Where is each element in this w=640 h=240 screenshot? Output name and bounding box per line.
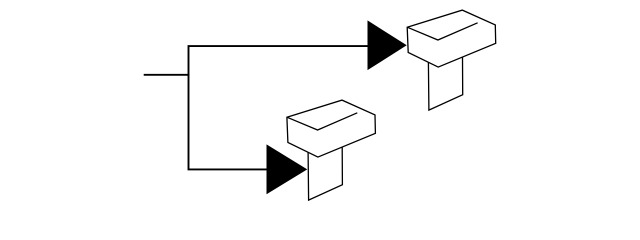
transducer 1 stem plate (428, 57, 462, 110)
op-amp U1 (top buffer triangle) (368, 21, 406, 69)
wire: input stub (144, 74, 190, 76)
node: fan-out junction / wire: vertical bus with top and bottom branches (189, 46, 369, 169)
transducer 2 slab outline (287, 100, 376, 157)
op-amp U2 (bottom buffer triangle) (267, 145, 306, 193)
transducer 1 top-face crease (407, 23, 477, 40)
transducer 2 top-face crease (287, 113, 357, 130)
transducer 1 slab outline (407, 10, 496, 67)
transducer block 2 (bottom 3D T-block) (287, 100, 376, 200)
transducer block 1 (top-right 3D T-block) (407, 10, 496, 110)
transducer 2 stem plate (308, 147, 342, 200)
